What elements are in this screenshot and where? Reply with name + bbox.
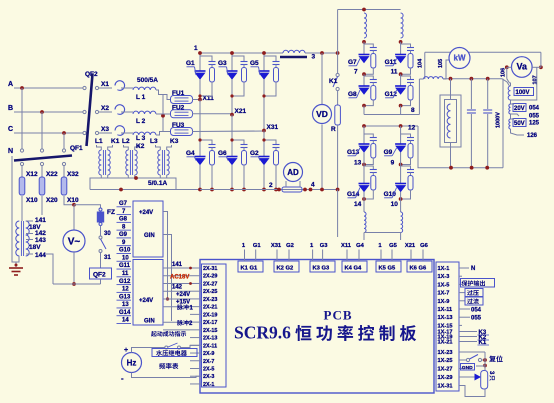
svg-text:X11: X11 xyxy=(341,243,352,249)
svg-text:11: 11 xyxy=(391,69,398,76)
label pulse2 xyxy=(177,320,189,326)
svg-text:K1 G1: K1 G1 xyxy=(241,266,259,272)
Hz wire top2 xyxy=(181,345,201,347)
junction xyxy=(362,163,366,167)
svg-text:1X-11: 1X-11 xyxy=(438,307,453,313)
svg-text:+15V: +15V xyxy=(176,300,190,306)
contact 30 xyxy=(99,236,102,239)
svg-text:C: C xyxy=(8,126,13,133)
coil 104 105 xyxy=(419,78,423,80)
junction t-bus xyxy=(119,188,123,192)
label freq meter xyxy=(159,363,178,369)
wire L2-FU2 xyxy=(156,113,171,115)
wire coil-3 xyxy=(305,52,338,54)
1000V vertical xyxy=(502,79,504,168)
CT X1 xyxy=(115,81,125,91)
svg-text:2X-15: 2X-15 xyxy=(203,328,217,334)
wire G1-X11 xyxy=(199,80,201,100)
meter Hz xyxy=(122,353,142,373)
wire TB ground xyxy=(16,256,19,267)
svg-text:G7: G7 xyxy=(119,201,128,207)
shunt xyxy=(282,187,302,192)
svg-text:GIN: GIN xyxy=(144,233,155,239)
label water relay xyxy=(152,349,197,357)
junction xyxy=(320,51,324,55)
thyristor G11 xyxy=(400,42,402,55)
junction ground xyxy=(15,264,18,267)
wire load top xyxy=(450,79,452,100)
main line xyxy=(443,78,502,80)
junctions xyxy=(449,77,453,81)
aux box 2 xyxy=(133,260,163,326)
svg-text:2X-17: 2X-17 xyxy=(203,320,217,326)
svg-text:GIN: GIN xyxy=(144,319,155,325)
svg-text:054: 054 xyxy=(471,308,482,314)
svg-text:142: 142 xyxy=(172,285,183,291)
svg-text:500/5A: 500/5A xyxy=(137,77,158,84)
thyristor G12 xyxy=(400,74,402,86)
bottom bus load xyxy=(419,167,503,169)
thyristor G5 xyxy=(259,70,270,72)
svg-text:X10: X10 xyxy=(67,197,79,204)
junction X30 xyxy=(72,203,76,207)
svg-text:+24V: +24V xyxy=(139,210,153,216)
fuse FZ xyxy=(99,208,102,211)
svg-text:G5: G5 xyxy=(250,60,259,67)
junction Va l xyxy=(505,65,509,69)
svg-text:2X-3: 2X-3 xyxy=(203,374,214,380)
svg-text:X22: X22 xyxy=(46,171,58,178)
fuse FU1 xyxy=(171,96,193,104)
wire col G3 top xyxy=(231,53,233,71)
label over volt xyxy=(462,292,465,294)
thyristor G14 xyxy=(363,153,365,184)
label 20V xyxy=(513,104,526,112)
svg-text:K5 G5: K5 G5 xyxy=(379,266,397,272)
snubber G4 xyxy=(200,140,212,143)
junction xyxy=(362,197,366,201)
snubber G1 xyxy=(200,56,212,60)
svg-text:G7: G7 xyxy=(348,59,357,66)
svg-text:L 2: L 2 xyxy=(136,118,146,125)
tick2 xyxy=(189,282,192,285)
svg-text:K1: K1 xyxy=(329,78,338,85)
svg-text:R: R xyxy=(331,126,336,133)
svg-text:13: 13 xyxy=(122,302,129,308)
svg-text:142: 142 xyxy=(35,230,46,237)
fuse FU2 xyxy=(171,110,193,118)
dots xyxy=(198,51,202,55)
bus 12 xyxy=(364,125,418,127)
kW top wire xyxy=(425,51,541,53)
svg-text:A: A xyxy=(8,81,13,88)
voltmeter VD branch xyxy=(321,53,323,104)
svg-text:2X-1: 2X-1 xyxy=(203,382,214,388)
inductor L3 xyxy=(121,132,133,134)
snubber G11 xyxy=(401,44,411,46)
wire col G1 top xyxy=(199,53,201,71)
thyristor G7 xyxy=(363,42,365,55)
svg-text:G5: G5 xyxy=(389,243,398,249)
svg-text:X31: X31 xyxy=(271,243,282,249)
svg-text:1X-13: 1X-13 xyxy=(438,315,453,321)
load box outer xyxy=(440,95,461,147)
svg-text:-: - xyxy=(121,374,124,383)
svg-text:GND: GND xyxy=(462,365,473,371)
svg-text:100V: 100V xyxy=(516,90,530,96)
svg-text:50V: 50V xyxy=(514,121,525,127)
tap 144 xyxy=(26,253,33,255)
svg-text:1X-25: 1X-25 xyxy=(438,358,453,364)
svg-text:2X-13: 2X-13 xyxy=(203,336,217,342)
svg-text:1X-3: 1X-3 xyxy=(438,274,450,280)
CT X3 xyxy=(115,126,125,136)
svg-text:2X-31: 2X-31 xyxy=(203,266,217,272)
svg-text:X3: X3 xyxy=(101,126,109,133)
snubber G6 xyxy=(232,140,244,143)
svg-text:1X-7: 1X-7 xyxy=(438,291,450,297)
CT X2 xyxy=(115,105,125,115)
svg-text:kW: kW xyxy=(454,54,466,63)
svg-text:L3: L3 xyxy=(150,138,158,145)
svg-text:G2: G2 xyxy=(250,150,259,157)
svg-text:14: 14 xyxy=(122,318,129,324)
svg-text:SCR9.6: SCR9.6 xyxy=(234,323,291,343)
thyristor G6 xyxy=(227,156,238,158)
filter coil xyxy=(283,50,305,53)
thyristor G10 xyxy=(400,153,402,184)
wire FU3-X31 xyxy=(192,130,264,133)
svg-text:1X-9: 1X-9 xyxy=(438,299,450,305)
resistor X12 xyxy=(21,165,23,177)
wire 1X-31 loop xyxy=(462,386,485,397)
wire QF-bus xyxy=(100,279,102,284)
snubber G14 xyxy=(364,166,373,168)
wire Va left xyxy=(507,66,512,68)
svg-text:G1: G1 xyxy=(253,243,262,249)
coil G7 xyxy=(364,13,367,38)
wire to bus8 xyxy=(400,106,402,115)
svg-text:FU3: FU3 xyxy=(172,122,185,129)
label over curr xyxy=(462,300,465,302)
tap 054 xyxy=(511,103,515,105)
tap 055 xyxy=(511,114,520,116)
svg-text:4: 4 xyxy=(311,182,315,189)
junctions bottom xyxy=(449,166,453,170)
inductor L2 xyxy=(121,111,133,113)
ammeter AD xyxy=(284,163,303,182)
svg-text:V~: V~ xyxy=(68,237,81,248)
svg-text:G11: G11 xyxy=(119,263,131,269)
wire A drop xyxy=(21,88,23,149)
output coil xyxy=(363,192,365,212)
svg-text:2X-27: 2X-27 xyxy=(203,281,217,287)
node X21 xyxy=(230,113,234,117)
resistor X32 xyxy=(63,165,65,177)
resistor X22 xyxy=(41,165,43,177)
svg-text:054: 054 xyxy=(529,106,540,112)
wire FU2-X21 xyxy=(192,113,232,115)
transformer TB xyxy=(16,221,20,256)
tap 142 xyxy=(26,233,33,235)
node dot C xyxy=(62,131,66,135)
PCB board xyxy=(200,260,434,394)
bus 8 xyxy=(364,114,419,116)
bus transformer-bridge xyxy=(90,189,200,191)
svg-text:L 1: L 1 xyxy=(136,94,146,101)
label K3b xyxy=(462,331,477,333)
svg-text:G1: G1 xyxy=(186,60,195,67)
ground xyxy=(9,267,23,269)
label GND xyxy=(461,364,475,371)
coil QF xyxy=(100,253,102,269)
junction V bus xyxy=(72,282,76,286)
Va meter xyxy=(512,57,533,78)
svg-text:X10: X10 xyxy=(26,197,38,204)
Hz wire bottom xyxy=(132,373,201,378)
svg-text:2X-21: 2X-21 xyxy=(203,305,217,311)
cap2 xyxy=(487,79,489,109)
svg-text:VD: VD xyxy=(316,109,328,119)
svg-text:11: 11 xyxy=(122,271,129,277)
svg-text:141: 141 xyxy=(35,217,46,224)
node X31 xyxy=(262,129,266,133)
svg-text:G13: G13 xyxy=(119,294,131,300)
svg-text:FU2: FU2 xyxy=(172,105,185,112)
svg-text:2X-23: 2X-23 xyxy=(203,297,217,303)
wire V-bus xyxy=(73,252,75,284)
junction +24V xyxy=(166,297,169,300)
svg-text:18V: 18V xyxy=(29,244,41,251)
label pulse1 xyxy=(177,304,189,310)
tap 125 xyxy=(511,118,515,120)
wire 100V top xyxy=(507,79,510,83)
svg-text:N: N xyxy=(8,148,13,155)
switch K1 xyxy=(337,53,339,74)
svg-text:20V: 20V xyxy=(514,106,525,112)
svg-text:G10: G10 xyxy=(119,248,131,254)
svg-text:G12: G12 xyxy=(119,279,131,285)
wire FU1-X11 xyxy=(192,99,200,101)
wire cross xyxy=(162,95,164,132)
svg-text:+24V: +24V xyxy=(139,298,153,304)
wire to 1G5 xyxy=(400,233,402,241)
svg-text:AD: AD xyxy=(287,168,299,177)
svg-text:G14: G14 xyxy=(119,310,131,316)
ammeter AD wires xyxy=(285,181,287,187)
wire R-bus xyxy=(337,125,339,190)
label K1b xyxy=(462,341,477,343)
thyristor G2 xyxy=(259,156,270,158)
label reset xyxy=(489,355,503,362)
svg-text:2X-29: 2X-29 xyxy=(203,274,217,280)
junction xyxy=(362,40,366,44)
wire X30-V xyxy=(73,205,75,230)
transformer L3K3 xyxy=(158,150,161,175)
svg-text:G6: G6 xyxy=(420,243,429,249)
wire T1 to bus xyxy=(90,178,97,190)
Hz wire top xyxy=(132,348,166,353)
svg-text:107: 107 xyxy=(533,75,539,84)
wire L3-FU3 xyxy=(156,132,171,136)
resistor R xyxy=(337,91,339,106)
pressure switch xyxy=(165,346,168,349)
svg-text:G9: G9 xyxy=(384,149,393,156)
svg-text:1X-27: 1X-27 xyxy=(438,367,453,373)
svg-text:055: 055 xyxy=(529,114,540,120)
svg-text:QF2: QF2 xyxy=(93,272,106,279)
wire to K4 area xyxy=(337,190,339,238)
tap 126 xyxy=(511,129,525,135)
svg-text:X21: X21 xyxy=(235,108,247,115)
bridge1 top bus xyxy=(200,52,283,54)
svg-text:2: 2 xyxy=(269,182,273,189)
svg-text:3: 3 xyxy=(312,54,316,61)
wire C drop xyxy=(63,133,65,149)
wire 144-bus xyxy=(46,254,53,284)
svg-text:PCB: PCB xyxy=(324,308,353,323)
bridge3 bottom bus xyxy=(364,232,401,234)
svg-text:1X-23: 1X-23 xyxy=(438,350,453,356)
dots xyxy=(262,51,266,55)
thyristor G8 xyxy=(363,74,365,86)
svg-text:2X-19: 2X-19 xyxy=(203,312,217,318)
svg-text:+24V: +24V xyxy=(176,292,190,298)
svg-text:1000V: 1000V xyxy=(496,112,502,128)
svg-text:K2 G2: K2 G2 xyxy=(277,266,294,272)
bridge2 top bus xyxy=(338,9,401,11)
svg-text:K3 G3: K3 G3 xyxy=(313,266,331,272)
wire FZ top xyxy=(74,205,101,208)
reset switch xyxy=(462,351,485,353)
wire X31 down xyxy=(263,131,265,157)
label K2b xyxy=(462,336,477,338)
svg-text:144: 144 xyxy=(35,252,46,259)
wire X21 down xyxy=(231,115,233,157)
svg-text:12: 12 xyxy=(122,287,129,293)
transformer L2K2 xyxy=(126,150,128,175)
svg-text:2X-9: 2X-9 xyxy=(203,351,214,357)
snubber G12 xyxy=(401,76,411,78)
svg-text:2X-5: 2X-5 xyxy=(203,366,214,372)
svg-text:L2: L2 xyxy=(122,138,130,145)
coil G11 xyxy=(401,13,404,38)
svg-text:9: 9 xyxy=(391,160,395,167)
wire Va right xyxy=(532,66,541,68)
tick xyxy=(189,267,192,270)
inductor L1 xyxy=(121,87,133,89)
wire X30 down xyxy=(64,196,74,205)
snubber G7 xyxy=(364,44,373,46)
wire G4-bus xyxy=(199,165,201,190)
junction xyxy=(362,104,366,108)
wire scr top xyxy=(484,358,486,371)
svg-text:Hz: Hz xyxy=(127,358,137,367)
connector 2X xyxy=(202,264,227,387)
node dot B xyxy=(40,110,44,114)
voltmeter V~ xyxy=(63,230,85,252)
junction xyxy=(399,163,403,167)
winding 100V xyxy=(508,86,510,100)
svg-text:13: 13 xyxy=(354,160,362,167)
snubber G13 xyxy=(364,134,373,136)
wire FZ-30 xyxy=(100,226,102,237)
junction xyxy=(399,40,403,44)
connectors K1G1..K6G6 xyxy=(238,261,263,272)
label N xyxy=(462,267,469,269)
thyristor G1 xyxy=(195,70,206,72)
label 055b xyxy=(462,316,470,318)
junction xyxy=(399,104,403,108)
junction xyxy=(399,124,403,128)
voltmeter VD xyxy=(313,105,332,124)
svg-text:1X-15: 1X-15 xyxy=(438,323,453,329)
svg-text:X2: X2 xyxy=(101,105,109,112)
svg-text:K6 G6: K6 G6 xyxy=(410,266,428,272)
wire bus12 down xyxy=(418,126,419,168)
wire to bus8 xyxy=(363,106,365,115)
fuse FU3 xyxy=(171,128,193,136)
svg-text:5/0.1A: 5/0.1A xyxy=(148,180,167,187)
svg-text:FU1: FU1 xyxy=(172,90,185,97)
svg-text:X20: X20 xyxy=(46,197,58,204)
wire to X11G4 xyxy=(363,233,365,241)
label start indicate xyxy=(151,331,186,337)
wires aux-2X xyxy=(163,267,190,269)
svg-text:G3: G3 xyxy=(320,243,329,249)
svg-text:B: B xyxy=(8,105,13,112)
wire bus8 up xyxy=(418,79,420,115)
svg-text:125: 125 xyxy=(529,121,540,127)
wire +24V down xyxy=(163,212,190,300)
snubber G3 xyxy=(232,56,244,60)
wire G6-bus xyxy=(231,165,233,190)
svg-text:104: 104 xyxy=(418,58,424,68)
svg-text:10: 10 xyxy=(391,201,399,208)
svg-text:2X-25: 2X-25 xyxy=(203,289,217,295)
wire X20 down xyxy=(41,196,43,215)
transformer bottom bus xyxy=(97,177,172,179)
svg-text:Va: Va xyxy=(517,62,529,72)
wire B drop xyxy=(41,112,43,149)
svg-text:X12: X12 xyxy=(26,171,38,178)
svg-text:14: 14 xyxy=(354,201,362,208)
output coil xyxy=(400,192,402,212)
meter kW xyxy=(449,48,470,69)
wire G3-X21 xyxy=(231,80,233,115)
svg-text:K4 G4: K4 G4 xyxy=(345,266,363,272)
N drop xyxy=(12,156,16,262)
svg-text:126: 126 xyxy=(527,133,538,139)
snubber G9 xyxy=(401,134,411,136)
load winding xyxy=(447,104,450,138)
label protect out xyxy=(461,279,495,288)
label 3only xyxy=(489,375,494,380)
thyristor G4 xyxy=(195,156,206,158)
svg-text:G8: G8 xyxy=(119,217,128,223)
svg-text:G2: G2 xyxy=(286,243,294,249)
thyristor G9 xyxy=(400,126,402,144)
svg-text:1X-21: 1X-21 xyxy=(438,340,453,346)
wire Va bottom xyxy=(511,67,537,100)
svg-text:143: 143 xyxy=(35,237,46,244)
wire col G5 top xyxy=(263,53,265,71)
svg-text:1X-29: 1X-29 xyxy=(438,375,453,381)
snubber G2 xyxy=(264,140,276,143)
svg-text:X21: X21 xyxy=(405,243,416,249)
svg-text:QF1: QF1 xyxy=(70,145,83,152)
switch blade xyxy=(101,239,107,249)
